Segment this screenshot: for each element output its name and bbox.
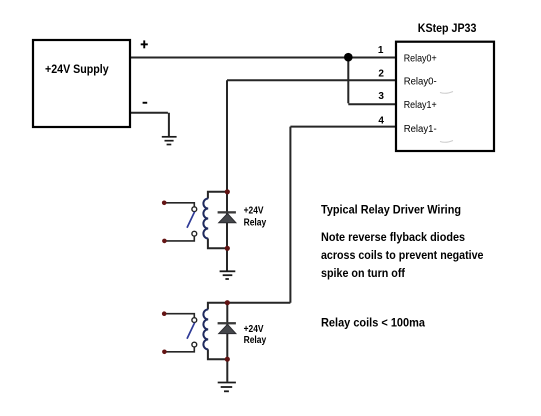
svg-text:+24V: +24V — [244, 206, 264, 217]
svg-text:4: 4 — [378, 116, 384, 127]
svg-text:KStep JP33: KStep JP33 — [418, 21, 477, 35]
svg-text:1: 1 — [378, 45, 384, 56]
svg-text:Relay1+: Relay1+ — [404, 100, 437, 111]
svg-text:Relay: Relay — [244, 217, 267, 228]
svg-text:Relay0-: Relay0- — [404, 76, 437, 87]
svg-text:Typical Relay Driver Wiring: Typical Relay Driver Wiring — [321, 203, 461, 217]
svg-text:Relay0+: Relay0+ — [404, 53, 437, 64]
svg-text:Relay coils < 100ma: Relay coils < 100ma — [321, 316, 425, 330]
svg-text:+24V: +24V — [244, 324, 264, 335]
svg-text:Relay: Relay — [244, 335, 267, 346]
svg-text:Note reverse flyback diodes: Note reverse flyback diodes — [321, 230, 465, 244]
svg-text:Relay1-: Relay1- — [404, 124, 437, 135]
svg-text:spike on turn off: spike on turn off — [321, 266, 406, 280]
svg-text:3: 3 — [378, 91, 384, 102]
svg-text:2: 2 — [378, 69, 384, 80]
svg-text:across coils to prevent negati: across coils to prevent negative — [321, 248, 484, 262]
svg-text:+24V Supply: +24V Supply — [45, 62, 109, 76]
